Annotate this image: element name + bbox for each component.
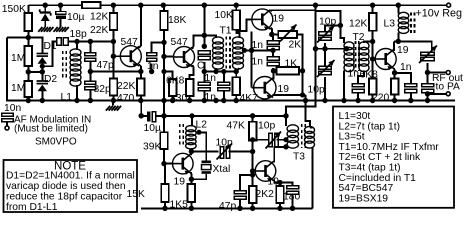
svg-text:47p: 47p <box>219 201 236 212</box>
resistor R21 2K2 <box>249 186 257 203</box>
wire trimmer A right lead <box>277 139 286 141</box>
inductor L3 <box>398 12 409 33</box>
junction on upper ground rail <box>170 98 175 103</box>
capacitor C1 10u electrolytic <box>56 12 66 19</box>
junction T1 tap <box>242 48 247 53</box>
wire Q4 collector <box>273 71 275 80</box>
svg-text:+10v Reg: +10v Reg <box>416 8 463 20</box>
resistor R6 22K upper <box>110 13 118 30</box>
svg-text:19=BSX19: 19=BSX19 <box>339 193 389 204</box>
junction on upper ground rail <box>213 98 218 103</box>
svg-text:1M: 1M <box>11 83 25 94</box>
junction T3 bottom <box>283 144 288 149</box>
resistor R8 330 <box>186 79 194 96</box>
wire tap to caps <box>252 49 273 51</box>
wire Q1 emitter <box>139 64 141 71</box>
wire 6K8-B bottom <box>372 95 374 101</box>
junction on +10v rail <box>58 2 63 7</box>
svg-text:39K: 39K <box>143 142 161 153</box>
core of L1 dashed <box>63 51 67 80</box>
resistor R9 6K8 <box>169 79 177 96</box>
label T2 <box>353 32 365 43</box>
svg-text:1M: 1M <box>11 53 25 64</box>
core of T2 dashed <box>355 41 358 71</box>
junction on +10v rail <box>234 2 239 7</box>
junction on upper ground rail <box>425 98 430 103</box>
label 150K <box>2 4 26 15</box>
legend line 9 <box>339 193 389 204</box>
wire 15K bottom <box>164 202 166 208</box>
junction on upper ground rail <box>322 98 327 103</box>
junction on upper ground rail <box>88 98 93 103</box>
junction 18p tap <box>40 64 45 69</box>
svg-text:T3: T3 <box>293 152 305 163</box>
wire 39K bottom lead <box>163 149 165 164</box>
wire 1nA bottom lead <box>272 52 274 57</box>
note line 2 <box>6 181 126 192</box>
wire trimmer B right lead <box>228 151 252 153</box>
junction T2 sec top <box>370 39 375 44</box>
resistor R11 4K7 <box>232 77 240 95</box>
wire crystal bottom lead <box>191 174 206 179</box>
wire trimmer1 top lead <box>325 25 340 31</box>
wire L1 bottom lead <box>76 85 78 101</box>
svg-text:varicap diode is used then: varicap diode is used then <box>6 181 126 192</box>
junction trimmer A right <box>283 137 288 142</box>
resistor R13 1K <box>277 67 299 75</box>
wire osc line <box>191 151 218 153</box>
transformer T2 primary <box>344 42 354 72</box>
label 19 Q8 <box>268 177 280 188</box>
wire trimmer out bottom lead <box>427 63 429 73</box>
svg-text:L2: L2 <box>196 120 208 131</box>
junction on upper ground rail <box>341 98 346 103</box>
label 6K8 second <box>360 70 379 81</box>
junction bias node <box>26 35 31 40</box>
junction caps mid <box>270 48 275 53</box>
transistor Q5 BSX19 mid <box>254 77 276 99</box>
junction CT left <box>313 46 318 51</box>
capacitor C7 1n <box>267 41 279 50</box>
wire 2K left lead <box>272 33 279 35</box>
legend line 1 <box>339 111 371 122</box>
wire C13 bottom <box>223 91 225 101</box>
wire 12K-B top <box>372 5 374 13</box>
svg-text:15K: 15K <box>127 189 145 200</box>
resistor R12K-A 12K in rail <box>82 2 101 8</box>
capacitor C4 82p <box>85 81 96 90</box>
svg-text:10K: 10K <box>215 10 233 21</box>
wire 4K7 bottom <box>235 95 237 101</box>
label 1n pair lower <box>205 92 217 103</box>
junction Q7 collector node <box>189 149 194 154</box>
label 1n fifth <box>400 62 412 73</box>
note box <box>4 160 138 212</box>
wire Q8 collector <box>274 147 287 163</box>
wire 18K down <box>163 30 165 116</box>
junction T3 top <box>283 113 288 118</box>
diode D1 varicap <box>37 54 49 64</box>
svg-text:1K: 1K <box>285 59 298 70</box>
junction on lower ground rail <box>189 206 194 211</box>
wire 2K right lead <box>297 34 303 95</box>
label 1K <box>285 59 298 70</box>
resistor R19 15K <box>161 184 169 202</box>
label 19 Q6 <box>397 45 409 56</box>
svg-text:47K: 47K <box>227 121 245 132</box>
wire Q3 emitter <box>271 28 272 35</box>
label 19 Q5 <box>278 84 290 95</box>
junction Q8 emitter node <box>277 180 282 185</box>
svg-text:2K: 2K <box>289 40 302 51</box>
junction C13 top <box>221 69 226 74</box>
capacitor C9 1n <box>352 84 364 93</box>
wire RF out <box>428 72 447 74</box>
label 1n third <box>252 57 264 68</box>
junction 4K7 top <box>234 69 239 74</box>
wire T3 secondary top lead <box>310 127 313 129</box>
svg-text:1n: 1n <box>348 69 360 80</box>
wire 1K5 bottom <box>190 202 192 208</box>
wire C17 top lead <box>240 175 253 191</box>
wire Q6 collector <box>393 41 395 51</box>
wire 180 bottom <box>279 203 281 208</box>
junction on upper ground rail <box>26 98 31 103</box>
label 22K lower <box>117 81 135 92</box>
wire 470 bottom <box>140 96 142 101</box>
label 47p second <box>219 201 236 212</box>
wire 470 lead <box>140 72 142 79</box>
svg-text:SM0VPO: SM0VPO <box>35 137 77 148</box>
junction on upper ground rail <box>74 98 79 103</box>
junction on upper ground rail <box>161 98 166 103</box>
svg-text:10µ: 10µ <box>144 123 161 134</box>
label 220 <box>372 93 389 104</box>
label 180 <box>283 192 300 203</box>
wire trimmer out top lead <box>431 49 433 52</box>
wire upper ground rail <box>7 38 455 101</box>
wire 1nA top lead <box>272 34 273 41</box>
junction 22K/47p node <box>111 39 116 44</box>
junction L3/collector <box>396 39 401 44</box>
transformer T1 secondary <box>233 37 244 69</box>
legend box <box>333 107 454 208</box>
wire Q7 collector <box>190 152 193 156</box>
trimmer resistor 2K <box>278 25 297 42</box>
label 82p <box>94 84 111 95</box>
junction trimmer1 top <box>338 23 343 28</box>
wire CT bus <box>316 48 347 50</box>
svg-text:1n: 1n <box>205 92 217 103</box>
resistor R18 1K5 <box>188 184 196 202</box>
wire T3 feed link <box>306 95 311 128</box>
diode D2 varicap <box>37 81 49 91</box>
wire output top <box>394 41 432 49</box>
transistor Q2 BC547 <box>174 47 195 69</box>
ground hatch under D3 <box>38 27 53 32</box>
junction on lower ground rail <box>250 206 255 211</box>
label 547 first <box>121 37 138 48</box>
label 39K <box>143 142 161 153</box>
junction on +10v rail <box>161 2 166 7</box>
junction 18K/1n <box>161 40 166 45</box>
wire 1M bottom <box>27 97 29 101</box>
label 1M upper <box>11 53 25 64</box>
wire T2 primary bottom lead <box>343 71 345 101</box>
junction varicap-1M <box>40 69 45 74</box>
svg-text:19: 19 <box>273 14 285 25</box>
svg-text:2K2: 2K2 <box>256 189 275 200</box>
label 15K <box>127 189 145 200</box>
capacitor C17 47p <box>234 191 246 200</box>
label 1M lower <box>11 83 25 94</box>
wire 22K-A bottom <box>112 30 114 42</box>
capacitor C11 out <box>422 84 434 93</box>
wire 22K-B bottom <box>112 96 114 101</box>
svg-text:6K8: 6K8 <box>166 76 185 87</box>
junction Q2 base node <box>161 54 166 59</box>
capacitor C5 1n <box>147 53 157 62</box>
wire Q3 base <box>236 19 252 31</box>
terminal +10v Reg <box>447 3 451 7</box>
resistor R16 220 <box>391 79 399 95</box>
label 10K <box>215 10 233 21</box>
resistor R4 470 <box>137 79 145 96</box>
label RF out <box>432 73 463 84</box>
svg-text:82p: 82p <box>94 84 111 95</box>
wire Q4 base <box>252 87 254 89</box>
junction on lower ground rail <box>290 206 295 211</box>
svg-text:6K8: 6K8 <box>360 70 379 81</box>
svg-text:D1=D2=1N4001. If a normal: D1=D2=1N4001. If a normal <box>6 171 135 182</box>
label 10u second <box>144 123 161 134</box>
wire 12K-B to base node <box>372 31 374 79</box>
label 12K second <box>349 19 367 30</box>
capacitor C6 C <box>198 51 210 60</box>
wire T3 primary bottom lead <box>285 146 287 148</box>
capacitor C2 18p <box>57 38 69 46</box>
core of L3 dashed <box>411 13 415 34</box>
trimmer capacitor 10p lower <box>317 60 335 77</box>
junction 2K line on ground rail <box>303 98 308 103</box>
legend line 2 <box>339 121 401 132</box>
resistor R22 180 <box>276 186 284 203</box>
label D2 <box>44 74 57 85</box>
wire Q1 base <box>113 55 120 57</box>
wire 150K top <box>27 5 29 13</box>
junction 47K top <box>250 113 255 118</box>
resistor R17 39K <box>160 132 168 149</box>
legend line 7 <box>339 173 417 184</box>
wire Q6 emitter <box>393 68 396 78</box>
wire out cap bottom lead <box>427 92 429 100</box>
svg-text:Xtal: Xtal <box>213 164 231 175</box>
label 47p <box>97 60 114 71</box>
wire 10K top <box>235 5 237 10</box>
junction on upper ground rail <box>392 98 397 103</box>
wire T1 bottom bus <box>204 72 236 78</box>
wire bias node horizontal <box>7 38 42 54</box>
wire Q8 emitter <box>274 180 280 186</box>
junction 47p top <box>88 39 93 44</box>
wire emitter bus <box>90 71 140 73</box>
wire Q7 base <box>164 163 172 165</box>
junction on upper ground rail <box>408 98 413 103</box>
wire Q6 base <box>373 58 375 60</box>
junction 6K8 link <box>161 69 166 74</box>
svg-text:19: 19 <box>397 45 409 56</box>
transformer T2 secondary <box>359 42 369 72</box>
svg-text:1n: 1n <box>400 62 412 73</box>
legend line 3 <box>339 132 365 143</box>
legend line 4 <box>339 142 440 153</box>
capacitor C12 1n pair A <box>198 82 210 91</box>
wire between 1M resistors <box>27 66 29 81</box>
wire 18p right lead <box>68 42 113 78</box>
wire diode D3 bottom lead <box>44 21 46 28</box>
junction on upper ground rail <box>221 98 226 103</box>
wire +10v rail left segment <box>28 4 82 6</box>
wire rail to T1 node <box>203 5 205 46</box>
svg-text:1n: 1n <box>252 57 264 68</box>
junction on upper ground rail <box>40 98 45 103</box>
core of T1 dashed <box>226 37 230 70</box>
wire out cap top lead <box>427 73 429 84</box>
junction on lower ground rail <box>162 206 167 211</box>
wire L2 top lead <box>191 116 193 127</box>
core of L2 dashed <box>180 124 184 147</box>
wire C12 bottom <box>203 91 205 101</box>
svg-text:1n: 1n <box>205 73 217 84</box>
wire L2 tap <box>196 132 206 160</box>
wire T2 secondary top lead <box>364 42 373 44</box>
wire C16 bottom <box>292 194 294 209</box>
junction on upper ground rail <box>234 98 239 103</box>
wire collector to T2 link <box>316 11 345 43</box>
wire mixer line down <box>315 5 317 49</box>
junction L1 top <box>74 39 79 44</box>
wire 10n bottom lead <box>6 122 8 127</box>
svg-text:reduce the 18pf capacitor: reduce the 18pf capacitor <box>6 192 123 203</box>
wire 1n C5 bottom lead <box>151 64 153 72</box>
junction on lower ground rail <box>277 206 282 211</box>
label L3 <box>384 19 396 30</box>
junction on upper ground rail <box>370 98 375 103</box>
svg-text:47p: 47p <box>97 60 114 71</box>
inductor L2 <box>186 126 197 149</box>
junction Q7 emitter node <box>189 177 194 182</box>
wire emitter bypass lead <box>280 183 293 186</box>
junction tap to vertical <box>249 48 254 53</box>
wire T1 secondary bottom lead <box>236 68 239 72</box>
wire 47p top lead <box>89 42 91 53</box>
junction 1n bottom <box>149 69 154 74</box>
wire 1n bypass lead <box>395 73 411 84</box>
wire C bottom lead <box>203 62 205 72</box>
note line 4 <box>6 202 58 213</box>
resistor R20 47K <box>249 122 257 141</box>
transformer T3 primary <box>287 125 299 148</box>
wire T1 secondary top lead <box>236 30 239 38</box>
svg-text:D1: D1 <box>44 41 57 52</box>
label 1n first <box>147 61 159 72</box>
svg-text:22K: 22K <box>90 25 108 36</box>
wire Q8 base <box>253 170 255 172</box>
wire C9 bottom <box>357 92 359 100</box>
wire +10v rail right segment <box>101 4 449 6</box>
wire 15K top lead <box>164 164 165 184</box>
wire 1n C5 top lead <box>152 42 164 52</box>
capacitor C13 1n pair B <box>218 82 230 91</box>
wire trimmer1 bottom lead <box>324 43 326 49</box>
svg-text:19: 19 <box>278 84 290 95</box>
wire 330 bottom <box>189 96 191 101</box>
junction on upper ground rail <box>187 98 192 103</box>
wire 82p bottom <box>89 89 91 100</box>
legend line 5 <box>339 152 422 163</box>
label 547 second <box>171 37 188 48</box>
label 47K <box>227 121 245 132</box>
wire 22K-A top <box>112 5 114 13</box>
legend line 6 <box>339 163 401 174</box>
junction on +10v rail <box>313 2 318 7</box>
resistor R1 150K <box>25 13 33 31</box>
junction C cap top <box>202 44 207 49</box>
junction on +10v rail <box>370 2 375 7</box>
diode D3 <box>40 9 51 21</box>
svg-text:19: 19 <box>174 177 186 188</box>
wire trimmer2 bottom lead <box>324 77 326 101</box>
label L1 <box>61 92 73 103</box>
resistor R5 22K lower <box>110 79 118 96</box>
label 6K8 first <box>166 76 185 87</box>
svg-text:18p: 18p <box>70 29 87 40</box>
svg-text:T1: T1 <box>220 26 232 37</box>
wire trimmer A left lead <box>253 139 268 141</box>
junction collector 1K <box>271 68 276 73</box>
wire D2 bottom <box>41 91 43 100</box>
junction on +10v rail <box>138 2 143 7</box>
svg-text:from D1-L1: from D1-L1 <box>6 202 58 213</box>
note line 3 <box>6 192 123 203</box>
wire C17 bottom <box>239 199 241 209</box>
ground hatch on rail left <box>106 101 121 111</box>
wire 220 bottom <box>394 95 396 101</box>
wire trimmer2 top lead <box>324 49 326 66</box>
wire Q4mid emitter <box>273 94 306 97</box>
wire T1 primary bottom lead <box>215 68 217 72</box>
junction Q6 base node <box>370 56 375 61</box>
label T1 <box>220 26 232 37</box>
label 10n <box>4 103 21 114</box>
wire L1 top lead <box>76 42 78 51</box>
transistor Q7 BSX19 xtal osc <box>173 153 194 174</box>
wire Q2 collector <box>192 35 204 49</box>
resistor R15 6K8 second <box>369 79 377 95</box>
junction Q7 base node <box>161 161 166 166</box>
wire 10u C1 bottom lead <box>60 19 62 27</box>
junction 1K to 2K line <box>300 68 305 73</box>
legend line 8 <box>339 183 394 194</box>
trimmer capacitor output <box>419 46 437 64</box>
wire 39K top lead <box>163 116 165 132</box>
junction on upper ground rail <box>138 98 143 103</box>
wire 2K2 bottom <box>252 203 254 208</box>
wire Q1 collector <box>139 5 141 48</box>
junction on upper ground rail <box>111 98 116 103</box>
junction emitter-2K line <box>300 92 305 97</box>
wire to PA <box>428 93 447 95</box>
